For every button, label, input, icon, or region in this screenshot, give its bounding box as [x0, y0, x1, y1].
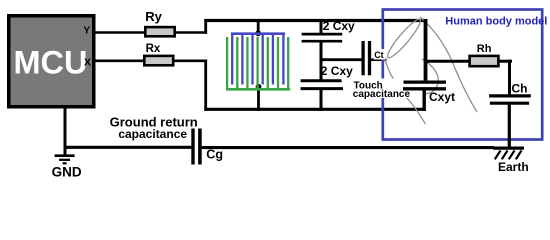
svg-text:Ch: Ch [512, 81, 528, 95]
wire link between 2Cxy caps [320, 41, 323, 81]
capacitor 2Cxy lower plates [301, 81, 343, 89]
wire sensor top feed [257, 19, 260, 34]
hand: index finger [384, 16, 423, 60]
wire Rx to corner [173, 59, 207, 62]
wire to Rh [426, 60, 472, 63]
svg-text:Cg: Cg [206, 147, 223, 161]
wire corner up to Y rail [204, 19, 207, 34]
svg-text:Ry: Ry [145, 9, 162, 24]
svg-text:MCU: MCU [13, 45, 87, 81]
wire body vertical (finger to Rh node) [424, 19, 428, 80]
svg-text:capacitance: capacitance [118, 127, 187, 141]
sensor green electrode (bottom bus + fingers) [226, 37, 290, 89]
label Ground return capacitance [110, 115, 198, 141]
X bottom rail [204, 108, 426, 111]
junction dot at green bus [256, 84, 262, 90]
svg-text:Earth: Earth [498, 160, 529, 174]
capacitor 2Cxy lower : bottom lead [320, 89, 323, 111]
hand: back of hand curve [420, 17, 477, 112]
wire MCU ground lead [64, 107, 67, 156]
wire sensor bottom feed [257, 87, 260, 111]
hand: curled finger [422, 59, 438, 94]
junction dot at blue bus [255, 30, 261, 36]
capacitor Cxyt plates [403, 82, 446, 89]
capacitor Ch bottom lead [508, 103, 511, 148]
svg-text:2 Cxy: 2 Cxy [323, 19, 355, 33]
wire Y pin to Ry [96, 31, 147, 34]
wire X pin to Rx [96, 59, 146, 62]
sensor blue electrode (top bus + fingers) [231, 34, 285, 85]
svg-text:Rh: Rh [477, 43, 492, 55]
resistor Rx [144, 43, 173, 65]
wire GND to Cg [65, 146, 191, 149]
capacitor Ct plates [363, 41, 369, 75]
svg-text:X: X [84, 57, 91, 69]
resistor Ry [145, 9, 175, 36]
wire corner down to X rail [204, 60, 207, 111]
wire Ry to corner [175, 31, 207, 34]
label Touch capacitance [352, 79, 410, 101]
wire Cg to Earth [202, 146, 494, 149]
svg-text:Human body model: Human body model [445, 15, 547, 27]
svg-text:2 Cxy: 2 Cxy [321, 64, 353, 78]
capacitor Cg plates [193, 129, 200, 165]
capacitor 2Cxy upper plates [302, 34, 343, 41]
Y top rail [204, 19, 427, 22]
capacitor Cxyt bottom lead [423, 89, 426, 111]
resistor Rh [470, 43, 499, 66]
earth ground symbol [493, 148, 524, 159]
human body model box [383, 10, 542, 140]
ground GND symbol [55, 156, 75, 164]
wire Ct to finger [371, 58, 386, 61]
svg-text:Cxyt: Cxyt [429, 90, 455, 104]
capacitor Ch plates [489, 96, 531, 103]
svg-text:GND: GND [52, 164, 82, 179]
svg-text:Rx: Rx [146, 43, 161, 55]
hand: palm bottom edge [383, 49, 426, 124]
label Ct [374, 49, 386, 60]
svg-text:Y: Y [83, 26, 90, 37]
wire corner down to Ch [508, 60, 511, 96]
wire mid node to Ct [321, 58, 362, 61]
wire Rh to corner [497, 60, 512, 63]
svg-text:Ct: Ct [374, 50, 384, 60]
capacitor 2Cxy upper : top lead [320, 19, 323, 34]
MCU block [9, 16, 94, 107]
svg-text:capacitance: capacitance [353, 89, 411, 100]
